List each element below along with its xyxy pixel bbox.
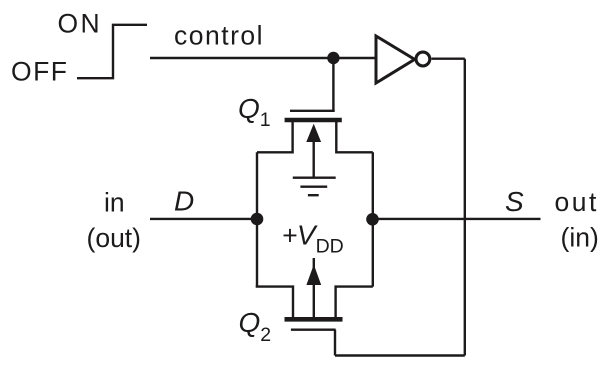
wire right rail [372, 152, 374, 286]
wire right rail down from inverter [464, 59, 466, 356]
substrate arrow Q1 head [306, 124, 321, 142]
wire control [150, 57, 375, 59]
substrate arrow Q2 head [306, 265, 321, 286]
ground bottom line [308, 194, 319, 196]
svg-text:D: D [174, 186, 194, 217]
svg-text:(out): (out) [87, 223, 142, 253]
ground middle line [300, 185, 327, 187]
wire input D [150, 218, 257, 220]
wire gate Q1 riser from control junction [332, 58, 334, 111]
transistor Q2 channel bar [285, 317, 343, 322]
wire left rail [256, 152, 258, 286]
wire inverter output [432, 58, 465, 60]
substrate arrow Q2 line [313, 258, 315, 317]
transistor Q1 left source leg [257, 121, 293, 152]
transistor Q2 right drain leg [336, 287, 373, 317]
svg-text:in: in [104, 188, 125, 218]
node S [366, 213, 379, 226]
svg-text:ON: ON [58, 8, 103, 38]
wire bottom run to Q2 gate [335, 354, 465, 356]
ground top line [293, 176, 336, 178]
substrate arrow Q1 line [313, 141, 315, 178]
transistor Q2 gate line [291, 329, 336, 331]
svg-text:out: out [555, 187, 599, 217]
transistor Q2 left source leg [256, 287, 293, 317]
svg-text:(in): (in) [561, 222, 599, 252]
waveform ON/OFF step [77, 25, 147, 78]
transistor Q1 gate line [290, 110, 335, 112]
node D [251, 213, 264, 226]
node junction control wire [327, 52, 339, 64]
wire Q2 gate riser [334, 330, 336, 356]
transistor Q1 right drain leg [336, 121, 373, 152]
wire output S [373, 218, 541, 220]
svg-text:S: S [505, 186, 524, 217]
inverter U1 triangle [376, 36, 415, 83]
svg-text:OFF: OFF [11, 57, 69, 87]
transistor Q1 channel bar [285, 118, 342, 123]
inverter U1 output bubble [416, 52, 430, 66]
svg-text:control: control [174, 21, 264, 51]
